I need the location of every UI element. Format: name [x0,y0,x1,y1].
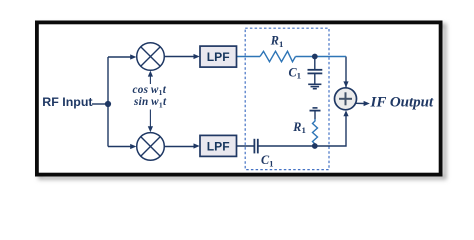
svg-text:LPF: LPF [207,50,230,64]
svg-text:RF Input: RF Input [42,95,92,109]
svg-text:LPF: LPF [207,139,230,153]
svg-text:IF Output: IF Output [370,94,435,110]
